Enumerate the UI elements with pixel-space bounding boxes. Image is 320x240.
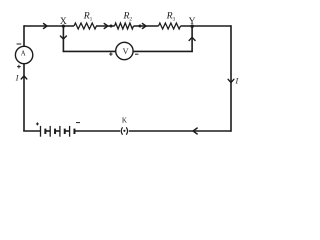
- arrow Y branch up: [189, 37, 195, 40]
- battery plate 6 short: [64, 129, 66, 134]
- polarity minus right of voltmeter: [135, 53, 138, 55]
- arrow bottom wire pointing left: [193, 128, 197, 134]
- svg-text:A: A: [21, 51, 26, 58]
- wire voltmeter left: [63, 50, 116, 52]
- svg-text:X: X: [60, 17, 67, 27]
- polarity minus at battery: [76, 122, 80, 124]
- polarity plus left of voltmeter: [109, 53, 112, 55]
- battery stub cell3-cell4: [65, 130, 70, 132]
- wire bottom battery to key: [74, 130, 120, 132]
- arrow right wire current down: [228, 79, 234, 82]
- battery plate 8 short: [73, 129, 75, 134]
- junction dot after R1 arrow: [110, 25, 113, 28]
- battery cells: [41, 126, 75, 137]
- key left parenthesis: [121, 128, 122, 135]
- battery plate 3 long: [49, 126, 51, 137]
- svg-text:V: V: [123, 47, 129, 56]
- battery stub cell1-cell2: [45, 130, 50, 132]
- arrow X branch down: [60, 36, 66, 39]
- svg-text:I: I: [235, 77, 239, 86]
- node Y junction dot: [191, 25, 194, 28]
- junction dot before R2 arrow: [139, 25, 142, 28]
- wire top between R2 and R3: [134, 25, 159, 27]
- wire left vertical below ammeter: [23, 64, 25, 132]
- svg-text:Y: Y: [189, 17, 196, 27]
- resistor R2: [115, 23, 134, 29]
- svg-text:K: K: [122, 117, 127, 125]
- battery plate 4 short: [54, 129, 56, 134]
- svg-text:I: I: [15, 74, 19, 83]
- key right parenthesis: [127, 128, 128, 135]
- wire top between R1 and R2: [96, 25, 115, 27]
- arrow after R1: [104, 24, 108, 29]
- battery plate 1 long: [40, 126, 42, 137]
- polarity plus at battery: [36, 123, 39, 125]
- resistor R1: [74, 23, 96, 29]
- polarity plus below ammeter: [17, 66, 21, 68]
- wire right vertical: [230, 25, 232, 132]
- polarity minus above ammeter: [17, 43, 22, 45]
- wire bottom key to right: [129, 130, 231, 132]
- resistor R3: [159, 23, 181, 29]
- wire top horizontal left: [24, 25, 74, 27]
- wire X branch down: [62, 26, 64, 52]
- arrow after R2 dot: [142, 24, 146, 29]
- ammeter A circle: [15, 46, 32, 63]
- wire top right: [181, 25, 232, 27]
- battery plate 2 short: [44, 129, 46, 134]
- voltmeter V circle: [116, 42, 133, 59]
- arrow left wire current up: [21, 76, 27, 79]
- wire Y branch up: [191, 26, 193, 52]
- wire bottom left to battery: [23, 130, 40, 132]
- arrow current top-left: [44, 24, 48, 29]
- wire left vertical above ammeter: [23, 25, 25, 46]
- wire voltmeter right: [133, 50, 193, 52]
- battery plate 5 long: [59, 126, 61, 137]
- node X junction dot: [62, 25, 65, 28]
- key plug dot: [123, 130, 125, 132]
- battery stub cell2-cell3: [55, 130, 60, 132]
- battery plate 7 long: [69, 126, 71, 137]
